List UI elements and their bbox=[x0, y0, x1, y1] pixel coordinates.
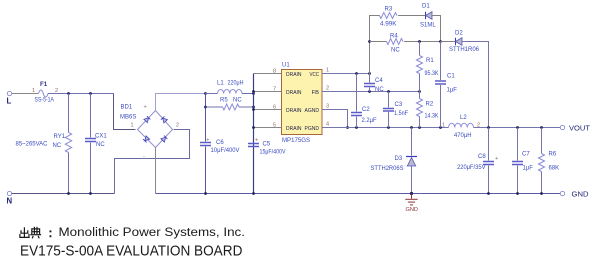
terminal GND bbox=[560, 191, 564, 195]
node FB R1 R2 bbox=[418, 90, 421, 93]
svg-text:GND: GND bbox=[406, 207, 419, 213]
svg-text:C7: C7 bbox=[522, 152, 530, 158]
node PGND row x=440 bbox=[439, 126, 442, 129]
svg-text:85~265VAC: 85~265VAC bbox=[16, 142, 49, 148]
capacitor C6 bbox=[205, 94, 207, 142]
wire AGND to PGND bbox=[322, 110, 348, 128]
svg-text:3: 3 bbox=[326, 104, 329, 110]
node rail C6 bbox=[204, 92, 207, 95]
svg-text:S1ML: S1ML bbox=[420, 23, 436, 29]
svg-text:C2: C2 bbox=[362, 107, 370, 113]
pin 6 DRAIN stub bbox=[254, 109, 282, 111]
svg-text:1: 1 bbox=[32, 88, 35, 94]
svg-text:14.3K: 14.3K bbox=[425, 114, 439, 120]
bridge rectifier BD1 MB6S bbox=[120, 105, 179, 160]
svg-text:NC: NC bbox=[391, 48, 400, 54]
svg-text:R2: R2 bbox=[426, 102, 434, 108]
svg-text:C4: C4 bbox=[375, 78, 383, 84]
svg-text:C3: C3 bbox=[395, 102, 403, 108]
svg-text:AGND: AGND bbox=[305, 108, 320, 114]
wire VCC row bbox=[322, 73, 370, 75]
svg-text:R5: R5 bbox=[220, 98, 228, 104]
wire PGND bottom row bbox=[322, 127, 449, 129]
resistor R3 bbox=[380, 13, 397, 19]
pin 5 DRAIN stub bbox=[254, 127, 282, 129]
svg-text:+: + bbox=[255, 138, 258, 144]
svg-text:95.3K: 95.3K bbox=[425, 71, 439, 77]
svg-text:220μF/35V: 220μF/35V bbox=[457, 165, 486, 171]
svg-text:1: 1 bbox=[326, 68, 329, 74]
wire N rail bbox=[12, 193, 115, 195]
svg-text:SS-5-1A: SS-5-1A bbox=[35, 98, 55, 104]
svg-text:Monolithic Power Systems, Inc.: Monolithic Power Systems, Inc. bbox=[59, 225, 246, 239]
svg-text:FB: FB bbox=[312, 90, 320, 96]
node VOUT C7 bbox=[516, 126, 519, 129]
capacitor C2 bbox=[356, 74, 358, 112]
svg-text:1.5nF: 1.5nF bbox=[394, 111, 408, 117]
resistor R5 bbox=[206, 106, 223, 108]
node PGND row x=419 bbox=[418, 126, 421, 129]
resistor R6 bbox=[541, 128, 543, 154]
svg-text:STTH2R06S: STTH2R06S bbox=[371, 166, 404, 172]
resistor R4 row bbox=[370, 41, 387, 43]
terminal N bbox=[7, 191, 11, 195]
svg-text:D1: D1 bbox=[422, 4, 430, 10]
node L1 right bbox=[252, 92, 255, 95]
svg-text:C8: C8 bbox=[478, 154, 486, 160]
svg-text:2: 2 bbox=[326, 86, 329, 92]
svg-text:2.2μF: 2.2μF bbox=[362, 118, 377, 124]
node VOUT L2 D2 bbox=[487, 126, 490, 129]
node PGND row x=356 bbox=[355, 126, 358, 129]
svg-text:5: 5 bbox=[273, 123, 276, 129]
svg-text:L: L bbox=[7, 97, 12, 106]
inductor L2 bbox=[449, 123, 474, 127]
svg-text:C6: C6 bbox=[216, 140, 224, 146]
svg-text:68K: 68K bbox=[549, 166, 560, 172]
wire D2 to switch column bbox=[462, 42, 489, 128]
svg-text:15μF/400V: 15μF/400V bbox=[260, 150, 286, 156]
svg-text:L2: L2 bbox=[460, 115, 467, 121]
ground symbol bbox=[405, 194, 417, 205]
wire L2 to VOUT bbox=[474, 127, 563, 129]
svg-text:DRAIN: DRAIN bbox=[286, 126, 302, 132]
svg-text:NC: NC bbox=[375, 87, 384, 93]
svg-text:PGND: PGND bbox=[305, 126, 320, 132]
svg-text:CX1: CX1 bbox=[95, 134, 107, 140]
node FB C4 bbox=[368, 90, 371, 93]
svg-text:C5: C5 bbox=[263, 142, 271, 148]
drain bus bbox=[253, 74, 255, 194]
pin 8 DRAIN stub bbox=[254, 73, 282, 75]
node VCC C4 bbox=[368, 72, 371, 75]
svg-text:DRAIN: DRAIN bbox=[286, 90, 302, 96]
wire L to fuse bbox=[12, 93, 39, 95]
svg-text:N: N bbox=[7, 197, 13, 206]
node R5 right bbox=[252, 106, 255, 109]
svg-text:MP175GS: MP175GS bbox=[282, 138, 310, 144]
svg-text:C1: C1 bbox=[447, 74, 455, 80]
svg-text:NC: NC bbox=[233, 98, 242, 104]
svg-text:D3: D3 bbox=[395, 156, 403, 162]
svg-text:VOUT: VOUT bbox=[569, 126, 591, 133]
diode D2 STTH1R06 bbox=[455, 38, 457, 46]
terminal L bbox=[7, 91, 11, 95]
svg-text:L1: L1 bbox=[217, 81, 224, 87]
svg-text:R6: R6 bbox=[549, 152, 557, 158]
node CX1 top bbox=[89, 92, 92, 95]
svg-text:7: 7 bbox=[273, 87, 276, 93]
svg-text:4.99K: 4.99K bbox=[380, 22, 397, 28]
node PGND row x=411 bbox=[410, 126, 413, 129]
ground rail bbox=[156, 193, 563, 195]
svg-text:R1: R1 bbox=[426, 58, 434, 64]
svg-text:D2: D2 bbox=[455, 31, 463, 37]
svg-text:U1: U1 bbox=[282, 63, 290, 69]
IC U1 MP175GS body bbox=[282, 70, 323, 135]
capacitor C7 bbox=[517, 128, 519, 161]
svg-text:R3: R3 bbox=[385, 7, 393, 13]
node VCC C2 bbox=[355, 72, 358, 75]
fuse F1 bbox=[39, 90, 49, 97]
capacitor C3 bbox=[388, 92, 390, 108]
wire to bridge pin1 bbox=[114, 94, 136, 130]
svg-text:10μF/400V: 10μF/400V bbox=[211, 148, 240, 154]
svg-text:1μF: 1μF bbox=[523, 166, 534, 172]
svg-text:1μF: 1μF bbox=[447, 88, 458, 94]
svg-text:220μH: 220μH bbox=[228, 81, 244, 87]
svg-text:NC: NC bbox=[96, 142, 105, 148]
inductor L1 bbox=[206, 93, 218, 95]
caption kanji shutten bbox=[20, 227, 41, 239]
wire top loop left leg bbox=[370, 16, 380, 74]
node PGND row x=388 bbox=[387, 126, 390, 129]
node VOUT R6 bbox=[540, 126, 543, 129]
resistor RY1 bbox=[68, 94, 70, 133]
svg-text:+: + bbox=[495, 156, 498, 162]
resistor R1 bbox=[419, 42, 421, 56]
svg-text:NC: NC bbox=[53, 143, 62, 149]
wire N to bridge pin2 bbox=[115, 130, 190, 194]
diode D1 S1ML bbox=[425, 12, 427, 20]
diode D3 STTH2R06S bbox=[411, 128, 413, 156]
svg-text:6: 6 bbox=[273, 105, 276, 111]
wire R3 to D1 bbox=[398, 15, 426, 17]
capacitor C1 bbox=[440, 42, 442, 81]
svg-text:2: 2 bbox=[176, 123, 179, 129]
svg-text:EV175-S-00A EVALUATION BOARD: EV175-S-00A EVALUATION BOARD bbox=[20, 244, 242, 260]
svg-text:STTH1R06: STTH1R06 bbox=[449, 47, 480, 53]
svg-text:+: + bbox=[206, 138, 209, 144]
capacitor C8 bbox=[488, 128, 490, 161]
svg-text:1: 1 bbox=[442, 123, 445, 129]
svg-text:RY1: RY1 bbox=[54, 134, 66, 140]
wire D1 to corner bbox=[432, 16, 441, 42]
svg-text:470μH: 470μH bbox=[454, 133, 472, 139]
svg-text:F1: F1 bbox=[40, 81, 48, 88]
wire FB row bbox=[322, 91, 420, 93]
wire fuse to corner bbox=[48, 93, 114, 95]
svg-text:DRAIN: DRAIN bbox=[286, 72, 302, 78]
node FB C3 bbox=[387, 90, 390, 93]
wire bridge minus down bbox=[155, 148, 157, 194]
svg-text:-: - bbox=[143, 154, 145, 160]
svg-text:8: 8 bbox=[273, 69, 276, 75]
svg-text:BD1: BD1 bbox=[121, 105, 133, 111]
capacitor CX1 bbox=[90, 94, 92, 138]
svg-text:4: 4 bbox=[326, 122, 329, 128]
resistor R2 bbox=[419, 92, 421, 99]
svg-text:GND: GND bbox=[572, 192, 589, 199]
capacitor C4 bbox=[369, 74, 371, 83]
svg-text:R4: R4 bbox=[390, 34, 398, 40]
wire to D2 bbox=[441, 41, 456, 43]
capacitor C5 bbox=[248, 143, 259, 145]
svg-text:DRAIN: DRAIN bbox=[286, 108, 302, 114]
svg-text:+: + bbox=[144, 105, 147, 111]
wire bridge plus rail bbox=[156, 94, 206, 111]
terminal VOUT bbox=[560, 125, 564, 129]
pin 7 DRAIN stub bbox=[254, 91, 282, 93]
svg-text:VCC: VCC bbox=[310, 72, 320, 78]
node RY1 top bbox=[67, 92, 70, 95]
svg-text:1: 1 bbox=[131, 123, 134, 129]
caption colon bbox=[50, 230, 52, 232]
svg-text:MB6S: MB6S bbox=[120, 115, 136, 121]
